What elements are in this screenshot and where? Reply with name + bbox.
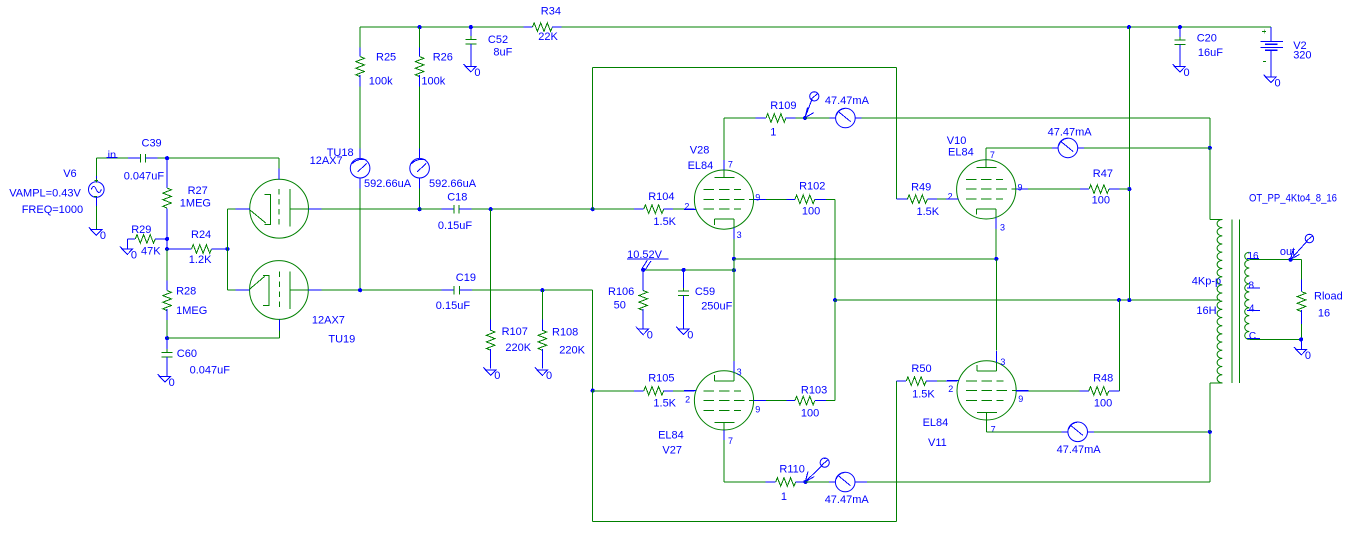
svg-text:22K: 22K: [538, 31, 558, 43]
ground R106: [636, 327, 649, 335]
svg-text:V11: V11: [928, 437, 947, 449]
wire cathode bus down to V27: [733, 259, 735, 361]
wire primary bottom lead: [1210, 382, 1223, 384]
svg-text:47.47mA: 47.47mA: [1057, 444, 1102, 456]
svg-text:EL84: EL84: [658, 429, 684, 441]
svg-text:0: 0: [1184, 67, 1190, 79]
wire V10 screen R47: [1016, 188, 1028, 190]
svg-text:7: 7: [991, 425, 996, 435]
svg-text:0: 0: [687, 329, 693, 341]
node junction R25 column TU19 plate: [358, 288, 362, 292]
wire V11 meter to junction: [1094, 431, 1210, 433]
svg-text:47.47mA: 47.47mA: [825, 494, 870, 506]
wire cathode column TU19: [226, 249, 228, 290]
wire down to TU18 grid pin: [278, 158, 280, 168]
wire V10 plate up corner: [985, 148, 987, 160]
svg-text:V27: V27: [662, 445, 682, 457]
node junction TU18 plate R26: [418, 207, 422, 211]
wire down to bottom loop: [592, 391, 594, 522]
wire R47 column: [1128, 27, 1130, 300]
svg-text:R49: R49: [911, 181, 931, 193]
svg-text:0: 0: [169, 377, 175, 389]
ground R29: [120, 247, 133, 255]
resistor R27: [163, 158, 211, 239]
ground C20: [1173, 64, 1186, 72]
resistor R26: [415, 48, 453, 88]
svg-text:100k: 100k: [421, 75, 445, 87]
wire top B+ rail left segment: [360, 26, 523, 28]
wire V6 to ground: [95, 206, 97, 230]
svg-text:9: 9: [1018, 394, 1023, 404]
resistor R34: [524, 5, 562, 43]
svg-text:8uF: 8uF: [493, 47, 512, 59]
wire tap C to Rload: [1249, 338, 1301, 340]
wire down to R49: [896, 67, 898, 199]
node junction R109 probe: [803, 116, 807, 120]
capacitor C60: [162, 338, 231, 376]
tap 16 label: [1247, 251, 1259, 262]
svg-text:0.15uF: 0.15uF: [436, 300, 471, 312]
node junction R110 probe: [803, 480, 807, 484]
resistor R103: [787, 385, 836, 420]
wire V11 plate down corner: [986, 420, 988, 432]
wire R25 to probe TU18: [359, 87, 361, 149]
wire up to V11 plate row: [1209, 432, 1211, 482]
current probe meter R110 47.47mA: [805, 472, 867, 492]
ground R108: [535, 367, 548, 375]
current probe meter R109 47.47mA: [805, 108, 861, 128]
node junction C52 top: [469, 25, 473, 29]
voltage source V6 VSIN: [9, 168, 104, 216]
svg-text:9: 9: [755, 193, 760, 203]
capacitor C18: [438, 192, 473, 233]
wire primary bottom down: [1209, 383, 1211, 432]
resistor R105: [593, 373, 695, 410]
svg-text:0: 0: [131, 249, 137, 261]
resistor R106: [608, 270, 648, 329]
ground V6: [89, 227, 102, 235]
wire C19 out: [472, 289, 593, 291]
wire top B+ rail right segment: [562, 26, 1271, 28]
tap 4 label: [1247, 303, 1260, 314]
node junction screen bus: [833, 298, 837, 302]
svg-text:9: 9: [1018, 182, 1023, 192]
resistor Rload: [1297, 280, 1343, 340]
pentode V28 EL84: [684, 145, 766, 240]
viewpoint 10.52V: [627, 249, 669, 270]
ground C60: [158, 374, 171, 382]
svg-text:1: 1: [781, 491, 787, 503]
node out: [1289, 258, 1293, 262]
wire V27 screen R103: [754, 400, 766, 402]
svg-text:0: 0: [546, 370, 552, 382]
tap C label: [1247, 331, 1260, 342]
battery V2 320V: [1261, 27, 1312, 77]
svg-text:47K: 47K: [141, 246, 161, 258]
svg-text:C20: C20: [1197, 33, 1217, 45]
triode TU19 12AX7: [235, 261, 355, 346]
ground C59: [676, 327, 689, 335]
node junction R105 drive: [591, 389, 595, 393]
svg-text:100: 100: [1094, 398, 1112, 410]
resistor R107: [486, 209, 531, 368]
svg-text:47.47mA: 47.47mA: [1048, 127, 1093, 139]
svg-text:R105: R105: [648, 373, 674, 385]
svg-text:EL84: EL84: [923, 417, 949, 429]
svg-text:0.047uF: 0.047uF: [190, 365, 231, 377]
svg-text:3: 3: [1000, 223, 1005, 233]
wire TU19 plate row to C19: [321, 289, 441, 291]
capacitor C39: [124, 137, 165, 182]
svg-text:592.66uA: 592.66uA: [364, 178, 412, 190]
node junction transformer bottom column: [1208, 430, 1212, 434]
current probe meter V10 47.47mA: [1052, 138, 1084, 158]
node junction C19 R108: [540, 288, 544, 292]
svg-text:C19: C19: [456, 272, 476, 284]
svg-text:16H: 16H: [1196, 305, 1216, 317]
svg-text:C60: C60: [177, 348, 197, 360]
current probe meter TU18a 592.66uA: [350, 149, 411, 190]
svg-text:592.66uA: 592.66uA: [429, 178, 477, 190]
resistor R102: [787, 180, 836, 217]
svg-text:1MEG: 1MEG: [180, 198, 211, 210]
wire R109 meter to right column: [861, 117, 1209, 119]
wire top distribution horizontal: [593, 66, 897, 68]
svg-text:R107: R107: [502, 326, 528, 338]
wire R110 meter to right: [867, 481, 1210, 483]
transformer core: [1231, 220, 1233, 383]
current marker probe R109: [805, 99, 812, 118]
node junction R47 column: [1127, 298, 1131, 302]
node junction C59 top: [682, 268, 686, 272]
transformer primary winding: [1217, 220, 1222, 383]
svg-text:8: 8: [1249, 281, 1255, 292]
svg-text:0.047uF: 0.047uF: [124, 171, 165, 183]
svg-text:R109: R109: [770, 100, 796, 112]
node junction R28 C60 TU19-grid: [165, 336, 169, 340]
pentode V10 EL84: [946, 135, 1028, 233]
svg-text:R47: R47: [1093, 168, 1113, 180]
svg-text:in: in: [108, 150, 117, 162]
wire screen bus to R103: [834, 300, 836, 401]
wire R26 column upper: [419, 27, 421, 47]
svg-text:R103: R103: [801, 385, 827, 397]
wire cathode bus horizontal: [734, 258, 997, 260]
node junction R48 column: [1117, 298, 1121, 302]
capacitor C59: [678, 270, 733, 329]
node junction C18 drive split: [591, 207, 595, 211]
svg-text:100: 100: [802, 206, 820, 218]
current probe meter TU18b 592.66uA: [410, 149, 477, 190]
svg-text:1: 1: [770, 127, 776, 139]
node junction R24 row: [165, 247, 169, 251]
resistor R47: [1080, 168, 1129, 206]
wire V27 plate down: [723, 440, 725, 482]
resistor R50: [896, 363, 957, 401]
wire C60 row to TU19 grid: [167, 337, 279, 339]
svg-text:7: 7: [728, 436, 733, 446]
resistor R28: [163, 249, 207, 338]
svg-text:0: 0: [647, 329, 653, 341]
svg-text:V6: V6: [63, 168, 76, 180]
svg-text:4Kp-p: 4Kp-p: [1192, 275, 1221, 287]
svg-text:16: 16: [1248, 251, 1260, 262]
wire between R29 and R24 rows: [166, 239, 168, 249]
node in label: [106, 150, 117, 162]
wire cathode to V11: [995, 259, 997, 351]
svg-text:EL84: EL84: [948, 146, 974, 158]
svg-text:OT_PP_4Kto4_8_16: OT_PP_4Kto4_8_16: [1249, 192, 1337, 204]
svg-text:220K: 220K: [559, 344, 585, 356]
svg-text:3: 3: [1000, 357, 1005, 367]
ground V2: [1264, 75, 1277, 83]
ground C52: [464, 64, 477, 72]
node junction R47: [1127, 187, 1131, 191]
svg-text:C: C: [1249, 331, 1256, 342]
svg-text:R102: R102: [799, 180, 825, 192]
resistor R29: [128, 224, 168, 258]
svg-text:100: 100: [1092, 194, 1110, 206]
svg-text:4: 4: [1249, 303, 1255, 314]
svg-text:R25: R25: [376, 52, 396, 64]
wire V10 meter to junction: [1084, 147, 1210, 149]
svg-text:3: 3: [737, 230, 742, 240]
wire bias row: [643, 269, 734, 271]
svg-text:12AX7: 12AX7: [312, 314, 345, 326]
capacitor C52: [465, 27, 512, 66]
triode TU18 12AX7: [235, 147, 353, 238]
svg-text:0: 0: [100, 230, 106, 242]
svg-text:V28: V28: [690, 145, 710, 157]
wire R29 to ground: [127, 239, 129, 249]
wire bottom loop horizontal: [593, 521, 897, 523]
wire primary top lead: [1210, 219, 1223, 221]
svg-text:EL84: EL84: [688, 160, 714, 172]
wire R26 column lower to TU18 plate node: [419, 188, 421, 209]
pentode V11 EL84: [923, 351, 1029, 449]
resistor R108: [538, 290, 586, 368]
svg-text:R110: R110: [779, 464, 804, 476]
svg-text:Rload: Rload: [1314, 291, 1343, 303]
svg-text:0: 0: [1305, 350, 1311, 362]
wire Rload to ground: [1300, 339, 1302, 349]
svg-text:50: 50: [614, 300, 626, 312]
wire V11 screen R48: [1016, 390, 1028, 392]
svg-text:1.5K: 1.5K: [653, 398, 676, 410]
wire C19 node corner: [592, 290, 594, 390]
wire TU18 plate to R26 node: [322, 208, 420, 210]
svg-text:C52: C52: [488, 34, 508, 46]
svg-text:47.47mA: 47.47mA: [825, 95, 870, 107]
wire V28 plate up: [723, 118, 725, 160]
svg-text:2: 2: [948, 192, 953, 202]
svg-text:TU19: TU19: [328, 333, 355, 345]
wire screen bus to transformer center tap: [835, 299, 1220, 301]
node junction V10 V11 cathode: [994, 257, 998, 261]
svg-text:220K: 220K: [505, 342, 531, 354]
pentode V27 EL84: [658, 361, 766, 457]
capacitor C20: [1174, 27, 1223, 66]
svg-text:9: 9: [755, 405, 760, 415]
resistor R49: [897, 181, 957, 217]
svg-text:R24: R24: [191, 229, 211, 241]
wire out to Rload: [1301, 260, 1303, 280]
voltage marker probe out: [1291, 241, 1308, 259]
svg-text:2: 2: [685, 394, 690, 404]
svg-text:VAMPL=0.43V: VAMPL=0.43V: [9, 188, 81, 200]
node junction R26 top: [418, 25, 422, 29]
svg-text:1MEG: 1MEG: [176, 305, 207, 317]
resistor R24: [167, 229, 227, 266]
svg-text:100k: 100k: [369, 75, 393, 87]
wire V28 screen R102: [754, 198, 766, 200]
svg-text:2: 2: [684, 202, 689, 212]
node junction R27 R29: [165, 237, 169, 241]
svg-text:0: 0: [474, 67, 480, 79]
wire TU18 plate node to C18: [420, 208, 442, 210]
resistor R110: [724, 464, 805, 504]
node junction V10 plate row: [1208, 146, 1212, 150]
wire C18 out: [472, 208, 593, 210]
svg-text:100: 100: [801, 408, 819, 420]
svg-text:0.15uF: 0.15uF: [438, 220, 473, 232]
svg-text:R34: R34: [541, 5, 561, 17]
svg-text:16: 16: [1318, 308, 1330, 320]
wire down to V10 plate row: [1209, 118, 1211, 148]
svg-text:C18: C18: [447, 192, 467, 204]
wire C39 to TU18 grid: [157, 157, 279, 159]
svg-text:FREQ=1000: FREQ=1000: [22, 204, 83, 216]
svg-text:1.5K: 1.5K: [912, 388, 935, 400]
svg-text:320: 320: [1293, 50, 1311, 62]
svg-text:250uF: 250uF: [701, 301, 732, 313]
node junction cathode bias: [732, 268, 736, 272]
wire junction down to transformer top: [1209, 148, 1211, 220]
svg-text:12AX7: 12AX7: [310, 155, 343, 167]
wire V28 cathode down: [733, 239, 735, 259]
node junction C18 R107: [489, 207, 493, 211]
wire R26 to probe TU18b: [419, 87, 421, 149]
node junction cathode bus V28: [732, 257, 736, 261]
ground Rload: [1294, 347, 1307, 355]
svg-text:1.2K: 1.2K: [189, 254, 212, 266]
wire bottom loop up to R50: [895, 381, 897, 521]
svg-text:R28: R28: [176, 285, 196, 297]
svg-text:7: 7: [728, 159, 733, 169]
node junction right column top: [1127, 25, 1131, 29]
wire R25 column lower to TU19 plate node: [359, 188, 361, 290]
node junction C39 R27: [165, 156, 169, 160]
wire R102 down to screen bus: [834, 199, 836, 300]
current probe meter V11 47.47mA: [1062, 422, 1094, 442]
svg-text:C39: C39: [142, 137, 162, 149]
wire R25 column upper: [359, 27, 361, 47]
transformer secondary winding: [1245, 252, 1250, 339]
svg-text:R29: R29: [131, 224, 151, 236]
resistor R25: [356, 48, 396, 88]
wire tap 16 to out: [1249, 259, 1301, 261]
resistor R109: [724, 100, 805, 139]
svg-text:0: 0: [494, 370, 500, 382]
svg-text:R27: R27: [188, 185, 208, 197]
svg-text:1.5K: 1.5K: [653, 216, 676, 228]
svg-text:2: 2: [948, 384, 953, 394]
node junction Rload C tap: [1299, 337, 1303, 341]
svg-text:R108: R108: [552, 327, 578, 339]
current marker probe R110: [805, 465, 822, 481]
node junction R106 top: [641, 268, 645, 272]
wire cathode column TU18: [226, 209, 228, 249]
node junction C20 top: [1178, 25, 1182, 29]
wire V10 cathode down: [995, 229, 997, 259]
svg-text:R106: R106: [608, 286, 634, 298]
svg-text:C59: C59: [695, 286, 715, 298]
resistor R104: [593, 191, 695, 228]
svg-text:R104: R104: [648, 191, 674, 203]
svg-text:1.5K: 1.5K: [917, 206, 940, 218]
svg-text:R26: R26: [433, 52, 453, 64]
node junction R24 cathode column: [225, 247, 229, 251]
svg-text:0: 0: [1275, 77, 1281, 89]
wire R48 column: [1118, 300, 1120, 391]
svg-text:V10: V10: [947, 135, 967, 147]
resistor R48: [1080, 372, 1120, 409]
wire cathode stub TU18: [227, 208, 235, 210]
svg-text:16uF: 16uF: [1198, 47, 1223, 59]
tap 8 label: [1247, 281, 1260, 292]
wire cathode stub TU19: [227, 289, 235, 291]
svg-text:R48: R48: [1093, 372, 1113, 384]
capacitor C19: [436, 272, 476, 312]
svg-text:7: 7: [990, 150, 995, 160]
ground R107: [483, 367, 496, 375]
wire C18 node up to top distribution: [592, 67, 594, 209]
svg-text:R50: R50: [911, 363, 931, 375]
svg-text:3: 3: [737, 367, 742, 377]
wire V6 top to C39: [95, 158, 97, 176]
